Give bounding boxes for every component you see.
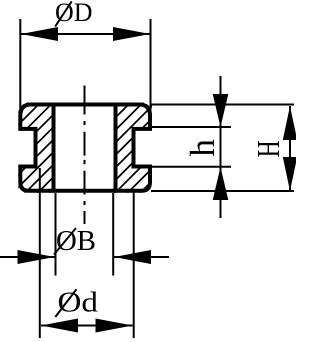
dim Od extension line right (133, 191, 135, 338)
svg-text:Od: Od (58, 286, 99, 318)
dim h arrow top (213, 94, 229, 127)
dim h extension line top (151, 126, 231, 128)
hatching right band (100, 0, 250, 271)
dim H arrow bottom (283, 157, 297, 191)
hatching left band (10, 0, 140, 246)
label OD slash (55, 1, 71, 26)
dim OD arrow left (21, 27, 58, 41)
dim OB arrow right (114, 250, 151, 264)
grommet body outline (20, 105, 150, 191)
dim h arrow bottom (213, 167, 229, 200)
dim H extension line top (151, 104, 294, 106)
svg-text:h: h (183, 139, 222, 157)
dim Od dimension line (41, 325, 133, 327)
dim h dimension line (220, 76, 222, 218)
dim OD dimension line (21, 33, 150, 35)
dim OB arrow left (18, 250, 55, 264)
dim OB extension line left (55, 193, 57, 276)
hole edge left (52, 103, 56, 193)
dim Od arrow left (41, 319, 78, 333)
dim H extension line bottom (151, 190, 294, 192)
dim OD extension line right (150, 19, 152, 115)
dim H arrow top (283, 106, 297, 140)
dim H dimension line (289, 106, 291, 191)
svg-text:OD: OD (55, 0, 93, 27)
dim OD extension line left (19, 19, 21, 116)
centerline (84, 86, 86, 225)
dim Od extension line left (39, 168, 41, 338)
dim Od arrow right (96, 319, 133, 333)
svg-text:OB: OB (56, 226, 96, 257)
dim OB dimension line left tail (0, 256, 55, 258)
svg-text:H: H (250, 140, 286, 157)
dim OB extension line right (112, 193, 114, 276)
hole edge right (114, 103, 118, 193)
dim OB dimension line right tail (114, 256, 169, 258)
dim OD arrow right (113, 27, 150, 41)
label Od slash (55, 289, 76, 317)
label OB slash (54, 228, 76, 255)
dim h extension line bottom (151, 166, 231, 168)
